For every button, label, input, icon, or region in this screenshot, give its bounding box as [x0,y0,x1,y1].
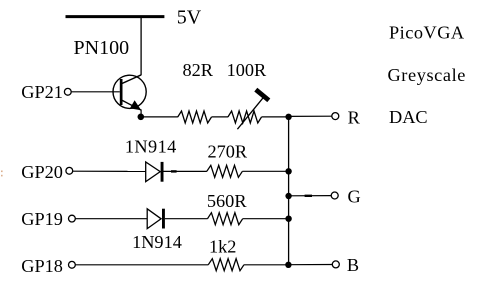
wire thick segment [171,170,177,172]
svg-text:G: G [348,187,361,207]
resistor 1k2 [208,259,244,271]
terminal G [331,192,338,199]
wire GP19 to diode D2 [76,218,148,220]
power rail 5V [66,15,165,18]
svg-text:B: B [347,255,359,275]
trimmer resistor 100R [228,90,269,130]
wire 82R to 100R [212,116,229,118]
svg-text:1N914: 1N914 [125,136,177,156]
junction node 560R [285,216,291,222]
terminal GP19 [69,215,76,222]
wire 1k2 to node B [244,264,289,266]
stray mark [1,171,3,177]
svg-text:PicoVGA: PicoVGA [389,22,465,42]
svg-text:100R: 100R [227,60,267,80]
svg-text:5V: 5V [177,6,202,28]
node R junction [285,114,291,120]
svg-text:GP18: GP18 [21,256,63,276]
wire node to B terminal [288,264,332,266]
svg-text:82R: 82R [183,60,214,80]
wire D2 to 560R [165,218,208,220]
wire D1 to 270R [164,170,207,172]
svg-text:Greyscale: Greyscale [388,65,466,85]
wire 270R to bus [242,170,288,172]
svg-text:GP20: GP20 [21,162,63,182]
wire GP21 to base [71,91,119,93]
svg-text:1k2: 1k2 [209,237,236,257]
wire GP18 to 1k2 [76,264,209,266]
junction node G [285,193,291,199]
wire 560R to bus [243,218,289,220]
transistor Q1 PN100 [113,75,146,117]
svg-text:GP21: GP21 [21,82,63,102]
terminal GP21 [64,88,71,95]
svg-text:270R: 270R [208,142,248,162]
junction node B [285,262,291,268]
svg-text:560R: 560R [207,191,247,211]
terminal GP20 [66,167,73,174]
wire emitter to 82R [141,116,178,118]
bus wire vertical [288,117,290,265]
svg-text:R: R [348,108,361,128]
wire 100R to node R [262,116,289,118]
resistor 82R [178,111,212,123]
wire node to R terminal [289,115,332,117]
junction emitter node [138,114,145,121]
terminal GP18 [69,261,76,268]
resistor 270R [207,165,243,177]
resistor 560R [208,213,243,225]
wire node to G terminal [289,195,332,197]
wire GP20 to diode D1 [73,170,146,172]
diode D1 1N914 [146,162,164,182]
terminal R [332,113,339,120]
diode D2 1N914 [147,209,165,229]
svg-text:GP19: GP19 [21,209,63,229]
wire collector to 5V rail [140,17,142,75]
wire thick segment G [305,195,312,197]
svg-text:1N914: 1N914 [132,232,182,252]
svg-text:PN100: PN100 [74,37,130,59]
terminal B [332,261,339,268]
svg-text:DAC: DAC [389,107,428,127]
junction node 270R [285,168,291,174]
